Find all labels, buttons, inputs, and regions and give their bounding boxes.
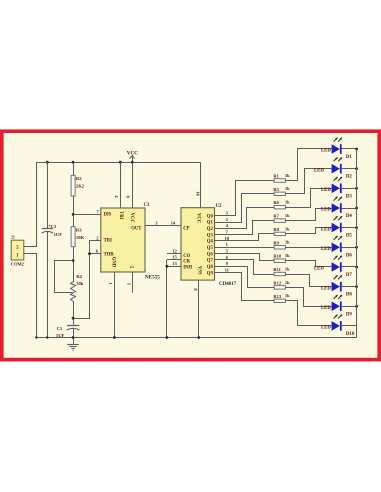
svg-text:TRI: TRI <box>118 211 123 220</box>
svg-text:CO: CO <box>183 254 190 259</box>
wire CD4017 pin12 CO stub <box>167 248 181 253</box>
wire R4 bottom to TRI/THR pins <box>74 241 101 319</box>
wire COM2 pin2 to VCC rail <box>24 163 37 247</box>
svg-text:12: 12 <box>172 248 177 253</box>
svg-text:D1: D1 <box>346 155 353 160</box>
wire R10 to LED D7 <box>286 261 332 267</box>
LED D4 <box>321 197 358 220</box>
svg-text:R5: R5 <box>273 187 279 192</box>
wire VCC top rail <box>37 162 201 164</box>
svg-text:NE555: NE555 <box>145 275 160 281</box>
svg-text:Q6: Q6 <box>207 252 214 257</box>
svg-text:15: 15 <box>172 255 177 260</box>
svg-text:Q0: Q0 <box>207 214 214 219</box>
svg-text:14: 14 <box>171 220 176 225</box>
VCC power symbol <box>127 151 138 163</box>
svg-text:*C2: *C2 <box>48 224 57 229</box>
resistor R7 1k <box>273 213 290 222</box>
svg-text:R12: R12 <box>273 280 281 285</box>
resistor R10 1k <box>273 253 290 262</box>
resistor R4 50k variable <box>55 261 84 325</box>
wire CD4017 pin13 INH to ground <box>166 260 182 339</box>
wire CD4017 Q3 pin7 to R7 <box>215 221 275 235</box>
svg-text:R11: R11 <box>273 267 281 272</box>
svg-text:J1: J1 <box>10 235 15 239</box>
svg-text:Q7: Q7 <box>207 259 214 264</box>
svg-text:LED: LED <box>321 286 331 291</box>
svg-text:LED: LED <box>314 168 324 173</box>
LED D6 <box>321 236 358 258</box>
svg-text:R13: R13 <box>273 294 281 299</box>
resistor R13 1k <box>273 293 290 302</box>
LED D2 <box>314 157 358 180</box>
svg-text:Q3: Q3 <box>207 233 214 238</box>
resistor R3 10K <box>71 227 84 282</box>
wire R1 to LED D1 <box>286 149 332 181</box>
svg-text:2K2: 2K2 <box>76 183 85 188</box>
wire R8 to LED D5 <box>286 228 332 234</box>
svg-text:R2: R2 <box>76 176 82 181</box>
svg-text:D10: D10 <box>346 332 355 337</box>
ground symbol <box>67 338 79 351</box>
svg-text:1k: 1k <box>285 253 290 258</box>
svg-text:R7: R7 <box>273 214 279 219</box>
wire CD4017 Q5 pin1 to R9 <box>215 242 275 247</box>
wire ground bottom rail <box>36 337 356 339</box>
node R3/R4 junction <box>72 259 75 262</box>
svg-text:COM2: COM2 <box>11 262 24 267</box>
svg-text:Q5: Q5 <box>207 246 214 251</box>
svg-text:D5: D5 <box>346 234 353 239</box>
capacitor C2 10UF electrolytic <box>42 162 63 338</box>
wire NE555 pin8 vcc to rail <box>126 162 133 208</box>
IC NE555 timer (refdes C3) <box>101 203 160 281</box>
svg-text:Q2: Q2 <box>207 227 214 232</box>
resistor R5 1k <box>273 186 290 195</box>
wire CD4017 pin16 vcc to rail <box>195 163 200 208</box>
wire CD4017 Q4 pin10 to R8 <box>215 234 275 241</box>
wire CD4017 Q6 pin5 to R10 <box>215 249 275 261</box>
svg-text:Q9: Q9 <box>207 271 214 276</box>
resistor R6 1k <box>273 200 290 209</box>
svg-text:D3: D3 <box>346 194 353 199</box>
LED D8 <box>321 275 358 298</box>
svg-text:1k: 1k <box>285 200 290 205</box>
wire CD4017 pin15 CR to ground <box>167 255 181 260</box>
svg-text:1UF: 1UF <box>56 333 65 338</box>
wire R5 to LED D2 <box>286 169 332 194</box>
svg-text:D4: D4 <box>346 214 353 219</box>
svg-text:16: 16 <box>195 191 200 196</box>
wire R13 to LED D10 <box>286 301 332 326</box>
svg-text:C3: C3 <box>144 203 150 208</box>
svg-text:1k: 1k <box>285 293 290 298</box>
svg-text:CD4017: CD4017 <box>219 282 237 287</box>
LED D3 <box>321 177 358 200</box>
svg-text:CR: CR <box>183 260 190 265</box>
svg-text:1k: 1k <box>285 280 290 285</box>
svg-text:LED: LED <box>321 326 331 331</box>
LED D10 <box>321 314 357 337</box>
connector J1 COM2 <box>10 235 24 267</box>
wire NE555 pin7 DIS <box>73 209 101 214</box>
svg-text:R10: R10 <box>273 254 281 259</box>
wire CD4017 pin8 VSS to ground <box>193 280 200 339</box>
svg-text:INH: INH <box>183 265 192 270</box>
svg-text:D9: D9 <box>346 312 353 317</box>
resistor R12 1k <box>273 280 290 289</box>
svg-text:1k: 1k <box>285 173 290 178</box>
svg-text:OUT: OUT <box>131 227 142 232</box>
svg-text:R3: R3 <box>76 228 82 233</box>
svg-text:Q1: Q1 <box>207 221 214 226</box>
svg-text:CP: CP <box>183 226 189 231</box>
resistor R9 1k <box>273 240 290 249</box>
wire CD4017 Q0 pin3 to R1 <box>215 181 275 216</box>
svg-text:D8: D8 <box>346 293 353 298</box>
wire R9 to LED D6 <box>286 247 332 249</box>
svg-text:R8: R8 <box>273 227 279 232</box>
node VCC rail junctions <box>46 161 134 164</box>
svg-text:LED: LED <box>321 208 331 213</box>
label NE555 pin2 pin6 numbers <box>96 236 100 254</box>
svg-text:R6: R6 <box>273 200 279 205</box>
capacitor C1 1UF electrolytic <box>56 326 80 339</box>
wire LED cathode return rail <box>356 149 358 338</box>
svg-text:10: 10 <box>225 236 230 241</box>
LED D1 <box>321 138 358 161</box>
wire CD4017 Q1 pin2 to R5 <box>215 194 275 223</box>
LED D7 <box>314 256 358 279</box>
svg-text:13: 13 <box>172 261 177 266</box>
wire NE555 pin3 OUT to CD4017 pin14 CP <box>145 220 181 225</box>
wire CD4017 Q8 pin9 to R12 <box>215 261 275 287</box>
svg-text:DIS: DIS <box>104 213 112 218</box>
svg-text:R1: R1 <box>273 174 279 179</box>
wire CD4017 Q2 pin4 to R6 <box>215 208 275 229</box>
svg-text:U2: U2 <box>216 204 222 209</box>
svg-text:VCC: VCC <box>129 213 134 224</box>
svg-text:LED: LED <box>321 306 331 311</box>
svg-text:D7: D7 <box>346 273 353 278</box>
svg-text:TRI: TRI <box>104 239 113 244</box>
svg-text:1UF: 1UF <box>54 232 63 237</box>
resistor R11 1k <box>273 266 290 275</box>
svg-text:1k: 1k <box>285 266 290 271</box>
wire NE555 pin5 stub <box>127 272 133 293</box>
svg-text:10K: 10K <box>76 235 85 240</box>
wire COM2 pin1 to ground rail <box>24 254 38 339</box>
IC U2 CD4017 decade counter <box>181 204 237 287</box>
node R2/R3/DIS junction <box>72 213 75 216</box>
svg-text:GND: GND <box>110 257 115 268</box>
svg-text:D2: D2 <box>346 175 353 180</box>
svg-text:LED: LED <box>314 267 324 272</box>
svg-text:LED: LED <box>321 149 331 154</box>
svg-text:LED: LED <box>321 247 331 252</box>
wire NE555 pin1 GND <box>108 272 116 339</box>
wire R6 to LED D3 <box>286 189 332 208</box>
wire R12 to LED D9 <box>286 288 332 307</box>
svg-text:C1: C1 <box>57 326 63 331</box>
svg-text:VCC: VCC <box>196 213 201 224</box>
wire CD4017 Q9 pin11 to R13 <box>215 268 275 301</box>
svg-text:1k: 1k <box>285 226 290 231</box>
svg-text:1k: 1k <box>285 213 290 218</box>
node R4/C1/THR junction <box>72 317 75 320</box>
svg-text:Q8: Q8 <box>207 265 214 270</box>
svg-text:VCC: VCC <box>127 151 138 157</box>
svg-text:R9: R9 <box>273 240 279 245</box>
svg-text:1k: 1k <box>285 240 290 245</box>
svg-text:LED: LED <box>321 188 331 193</box>
node C1 ground junction <box>72 336 75 339</box>
svg-text:R4: R4 <box>76 274 82 279</box>
svg-text:Q4: Q4 <box>207 240 214 245</box>
LED D9 <box>321 295 358 318</box>
wire CD4017 Q7 pin6 to R11 <box>215 255 275 275</box>
svg-text:LED: LED <box>321 227 331 232</box>
wire NE555 pin4 reset to rail <box>114 162 120 208</box>
wire R7 to LED D4 <box>286 209 332 221</box>
wire R11 to LED D8 <box>286 275 332 287</box>
resistor R8 1k <box>273 226 290 235</box>
LED D5 <box>321 216 358 239</box>
svg-text:1k: 1k <box>285 186 290 191</box>
svg-text:11: 11 <box>225 268 230 273</box>
svg-text:50k: 50k <box>76 281 84 286</box>
resistor R2 2K2 <box>71 162 85 227</box>
resistor R1 1k <box>273 173 290 182</box>
svg-text:D6: D6 <box>346 253 353 258</box>
svg-text:VSS: VSS <box>196 266 201 275</box>
